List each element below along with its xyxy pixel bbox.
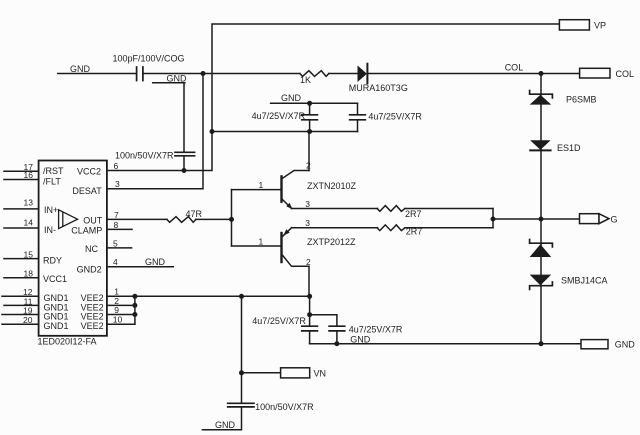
wire Q1 emitter to 2R7 xyxy=(292,208,378,210)
svg-text:DESAT: DESAT xyxy=(72,186,102,196)
wire Q1 collector to decoupling rail xyxy=(308,132,310,171)
pin 18 stub xyxy=(4,268,39,278)
diode SMBJ14CA upper zener xyxy=(530,240,553,258)
connector VN xyxy=(281,368,310,378)
wire VP rail (VCC2 pin 6 to VP) xyxy=(107,24,560,171)
svg-text:3: 3 xyxy=(115,179,120,189)
svg-text:GND: GND xyxy=(215,420,236,430)
wire to VN connector xyxy=(242,372,281,374)
svg-text:8: 8 xyxy=(114,220,119,230)
pin 12 stub xyxy=(2,287,39,297)
pin 16 stub xyxy=(4,170,39,180)
wire diode to COL connector xyxy=(367,73,579,75)
svg-text:4u7/25V/X7R: 4u7/25V/X7R xyxy=(368,112,422,122)
wire right vertical COL-G-GND bus xyxy=(540,74,542,344)
svg-text:ZXTN2010Z: ZXTN2010Z xyxy=(307,181,357,191)
wire VEE2/GND bottom rail xyxy=(310,341,581,346)
pin 10 stub VEE2 xyxy=(107,315,135,325)
svg-text:GND2: GND2 xyxy=(77,264,102,274)
pin 19 stub xyxy=(2,306,39,316)
op-amp input buffer symbol inside U1 xyxy=(59,210,78,229)
node GND (above 100n cap) xyxy=(153,74,187,84)
resistor 2R7 lower xyxy=(377,225,405,231)
wire VEE2 rail (pin 1) xyxy=(107,287,312,299)
svg-text:GND: GND xyxy=(70,64,91,74)
svg-text:18: 18 xyxy=(24,268,34,278)
svg-text:GND: GND xyxy=(281,93,302,103)
capacitor 100n/50V/X7R (top) xyxy=(175,83,195,173)
svg-text:100pF/100V/COG: 100pF/100V/COG xyxy=(113,54,185,64)
capacitor 4u7/25V/X7R (lower left) xyxy=(302,296,318,343)
connector GND right xyxy=(581,340,608,349)
svg-text:4u7/25V/X7R: 4u7/25V/X7R xyxy=(252,316,306,326)
svg-text:GND: GND xyxy=(167,74,188,84)
svg-text:GND1: GND1 xyxy=(44,321,69,331)
svg-text:IN+: IN+ xyxy=(44,205,58,215)
svg-text:IN-: IN- xyxy=(44,225,56,235)
svg-text:47R: 47R xyxy=(186,209,203,219)
pin 8 number xyxy=(107,220,132,230)
svg-text:4u7/25V/X7R: 4u7/25V/X7R xyxy=(252,111,306,121)
svg-text:ZXTP2012Z: ZXTP2012Z xyxy=(307,237,356,247)
wire 100pF to 1K resistor xyxy=(143,73,300,75)
svg-text:7: 7 xyxy=(114,210,119,220)
svg-text:4: 4 xyxy=(113,257,118,267)
svg-text:VCC1: VCC1 xyxy=(43,274,67,284)
wire base tie vertical xyxy=(231,190,233,246)
svg-text:6: 6 xyxy=(114,161,119,171)
capacitor 100pF/100V/COG xyxy=(137,67,143,81)
svg-text:2: 2 xyxy=(306,257,311,267)
wire DESAT (pin 3) to COL line xyxy=(107,74,203,189)
svg-text:10: 10 xyxy=(113,315,123,325)
svg-text:3: 3 xyxy=(305,218,310,228)
svg-text:9: 9 xyxy=(114,305,119,315)
svg-text:/RST: /RST xyxy=(43,166,64,176)
resistor 47R xyxy=(167,217,196,223)
svg-text:1K: 1K xyxy=(300,75,311,85)
IC U1 1ED020I12-FA body xyxy=(39,161,107,336)
wire 47R to base node xyxy=(196,217,234,222)
svg-text:SMBJ14CA: SMBJ14CA xyxy=(561,276,608,286)
svg-text:CLAMP: CLAMP xyxy=(71,225,102,235)
svg-text:OUT: OUT xyxy=(83,216,103,226)
wire GND to 100pF xyxy=(58,73,137,75)
svg-text:5: 5 xyxy=(113,238,118,248)
svg-text:VN: VN xyxy=(314,369,327,379)
connector COL xyxy=(580,68,610,78)
connector G xyxy=(580,214,610,224)
svg-text:COL: COL xyxy=(616,69,635,79)
pin 4 stub GND2 xyxy=(107,257,173,267)
svg-text:13: 13 xyxy=(24,197,34,207)
svg-text:20: 20 xyxy=(23,315,33,325)
connector VP xyxy=(559,20,589,30)
svg-text:G: G xyxy=(611,214,618,224)
pin 11 stub xyxy=(4,297,39,307)
pin 15 stub xyxy=(4,249,39,259)
pin GND1 labels xyxy=(44,293,69,331)
svg-text:ES1D: ES1D xyxy=(557,143,581,153)
wire 2R7 lower to join xyxy=(405,227,493,229)
transistor Q2 ZXTP2012Z (PNP) xyxy=(282,228,310,266)
svg-text:1: 1 xyxy=(259,236,264,246)
svg-text:GND: GND xyxy=(615,339,636,349)
wire VEE2 tie vertical xyxy=(134,296,136,324)
svg-text:16: 16 xyxy=(24,170,34,180)
diode MURA160T3G xyxy=(358,64,368,84)
wire 1K to diode xyxy=(329,73,358,75)
capacitor 100n/50V/X7R (bottom) xyxy=(202,403,254,429)
pin 13 stub xyxy=(4,197,39,209)
capacitor 4u7/25V/X7R (upper right) xyxy=(350,103,366,131)
resistor 1K xyxy=(300,71,329,77)
svg-text:4u7/25V/X7R: 4u7/25V/X7R xyxy=(349,324,403,334)
svg-text:RDY: RDY xyxy=(43,256,62,266)
svg-text:15: 15 xyxy=(24,249,34,259)
svg-text:VEE2: VEE2 xyxy=(81,321,104,331)
pin 14 stub xyxy=(4,217,39,228)
svg-text:MURA160T3G: MURA160T3G xyxy=(349,83,408,93)
transistor Q1 ZXTN2010Z (NPN) xyxy=(282,171,310,210)
svg-text:/FLT: /FLT xyxy=(43,176,61,186)
pin VEE2 labels xyxy=(81,293,104,331)
junction COL node xyxy=(539,71,544,76)
svg-text:3: 3 xyxy=(305,199,310,209)
svg-text:100n/50V/X7R: 100n/50V/X7R xyxy=(255,402,314,412)
svg-text:P6SMB: P6SMB xyxy=(566,95,597,105)
capacitor 4u7/25V/X7R (lower right) xyxy=(310,315,345,347)
wire PNP base (pin 1) xyxy=(232,236,281,246)
svg-text:19: 19 xyxy=(23,306,33,316)
capacitor 4u7/25V/X7R (upper left) xyxy=(302,103,318,131)
svg-text:GND: GND xyxy=(145,257,166,267)
pin 20 stub xyxy=(2,315,39,325)
svg-text:NC: NC xyxy=(85,244,98,254)
wire 2R7 join vertical xyxy=(491,209,496,228)
pin 17 stub xyxy=(4,162,39,172)
svg-text:COL: COL xyxy=(505,63,524,73)
wire Q2 pin2 to VEE2 rail xyxy=(308,266,310,296)
svg-text:2R7: 2R7 xyxy=(405,209,422,219)
wire 2R7 upper to join xyxy=(405,208,493,210)
diode P6SMB (zener) xyxy=(530,91,553,105)
svg-text:VP: VP xyxy=(594,21,606,31)
diode ES1D xyxy=(530,140,550,150)
resistor 2R7 upper xyxy=(377,206,405,212)
svg-text:1: 1 xyxy=(259,180,264,190)
diode SMBJ14CA lower zener xyxy=(530,275,553,290)
wire VCC2 decoupling rail xyxy=(210,129,358,134)
node GND (upper caps ground bar) xyxy=(271,93,358,106)
wire Q2 pin3 to 2R7 xyxy=(292,227,378,229)
pin 5 stub NC xyxy=(107,238,132,248)
pin 9 stub VEE2 xyxy=(107,305,137,317)
pin 2 stub VEE2 xyxy=(107,296,137,308)
wire NPN base (pin 1) xyxy=(232,180,281,190)
junction at DESAT tap xyxy=(201,71,206,76)
svg-text:100n/50V/X7R: 100n/50V/X7R xyxy=(115,150,174,160)
wire OUT pin 7 to 47R xyxy=(107,218,167,220)
wire VN branch vertical xyxy=(239,296,244,403)
svg-text:1ED020I12-FA: 1ED020I12-FA xyxy=(38,337,97,347)
svg-text:VCC2: VCC2 xyxy=(77,167,101,177)
wire gate node to G connector xyxy=(493,217,580,222)
svg-text:14: 14 xyxy=(24,217,34,227)
